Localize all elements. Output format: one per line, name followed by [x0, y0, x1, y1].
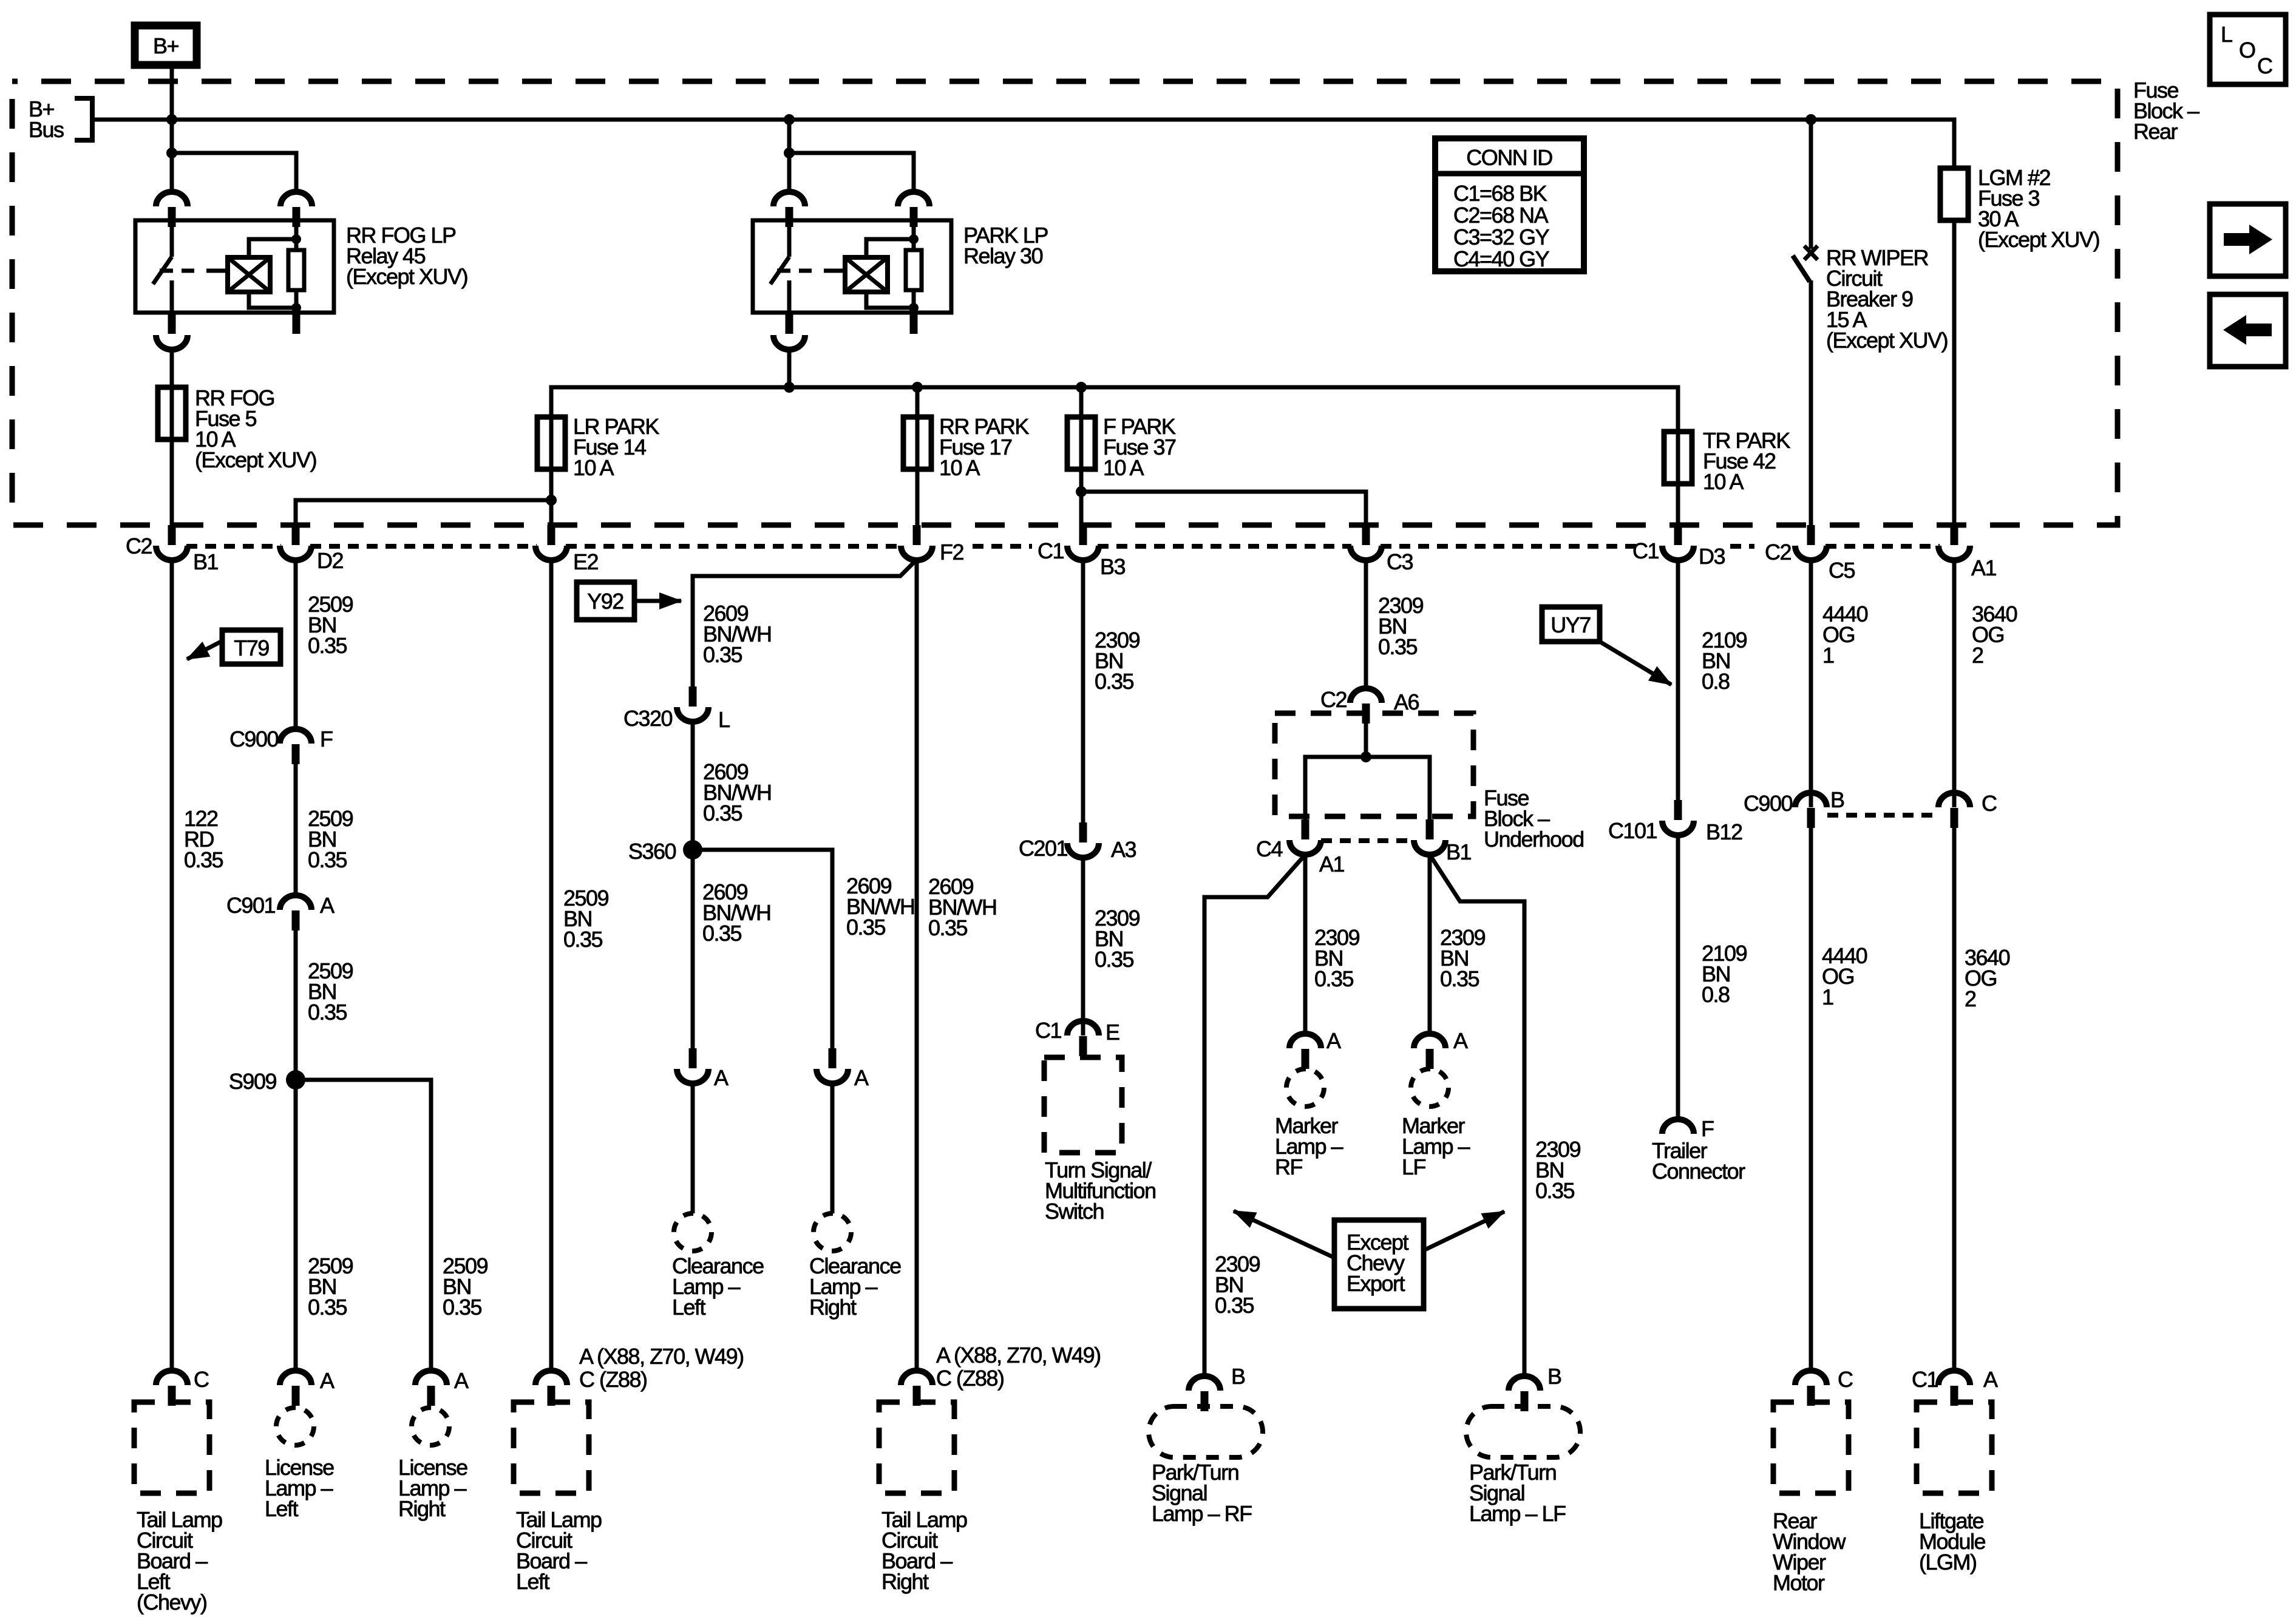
svg-text:C900: C900: [229, 727, 279, 751]
wire: [294, 931, 298, 1372]
svg-text:0.35: 0.35: [1095, 669, 1134, 694]
svg-text:Motor: Motor: [1773, 1570, 1825, 1595]
wire: [294, 764, 298, 897]
breaker blade: [1793, 256, 1810, 282]
svg-text:C5: C5: [1829, 558, 1855, 583]
svg-text:C1: C1: [1912, 1367, 1938, 1392]
svg-text:0.35: 0.35: [1215, 1293, 1254, 1318]
svg-text:B+: B+: [153, 33, 179, 58]
svg-text:UY7: UY7: [1550, 612, 1591, 637]
liftgate module box: [1917, 1402, 1992, 1493]
svg-text:A: A: [320, 893, 335, 918]
svg-text:10 A: 10 A: [573, 455, 614, 480]
wire E2 down: [549, 560, 554, 1372]
svg-text:C (Z88): C (Z88): [936, 1366, 1004, 1391]
svg-text:C (Z88): C (Z88): [579, 1367, 647, 1392]
svg-text:A: A: [320, 1368, 335, 1393]
svg-text:Left: Left: [265, 1496, 299, 1521]
svg-text:B: B: [1830, 787, 1844, 812]
connector C2/C5: [1795, 525, 1827, 560]
connector D2: [280, 525, 311, 560]
junction dot relay1 branch: [166, 147, 177, 158]
svg-text:A1: A1: [1971, 555, 1997, 580]
svg-text:Right: Right: [809, 1295, 857, 1320]
svg-text:0.35: 0.35: [1095, 947, 1134, 972]
connector C wiper: [1795, 1371, 1827, 1406]
svg-text:1: 1: [1822, 643, 1834, 668]
connector C2 A6: [1350, 688, 1382, 724]
svg-text:10 A: 10 A: [1703, 469, 1744, 494]
connector E2: [535, 525, 567, 560]
wire breaker down: [1809, 280, 1813, 526]
connector C900 F: [280, 729, 311, 764]
svg-text:C2=68 NA: C2=68 NA: [1453, 203, 1549, 228]
svg-text:0.35: 0.35: [308, 633, 347, 658]
wire A1 down: [1952, 560, 1957, 807]
park feed wire: [551, 387, 1678, 526]
svg-text:(Except XUV): (Except XUV): [1978, 227, 2099, 252]
svg-text:Left: Left: [516, 1569, 550, 1594]
wire bus to breaker: [1809, 120, 1813, 249]
svg-text:Y92: Y92: [587, 589, 623, 614]
connector A marker RF: [1289, 1034, 1321, 1069]
svg-text:O: O: [2239, 38, 2255, 63]
connector A1: [1938, 525, 1970, 560]
svg-text:B1: B1: [1446, 839, 1472, 864]
arrow to LF wire: [1424, 1212, 1504, 1250]
svg-text:L: L: [718, 707, 730, 732]
svg-text:10 A: 10 A: [1103, 455, 1144, 480]
rear window wiper motor box: [1773, 1402, 1849, 1493]
junction dot bus/breaker: [1805, 114, 1816, 125]
connector C101 B12: [1662, 800, 1694, 835]
wire fuse3 down: [1952, 220, 1957, 526]
connector C1 E: [1067, 1021, 1099, 1056]
wire fuse37 down: [1079, 387, 1084, 526]
turn signal switch box: [1044, 1057, 1122, 1153]
svg-text:Relay 30: Relay 30: [963, 243, 1043, 268]
svg-text:D3: D3: [1699, 544, 1725, 569]
bus wire: [92, 120, 1954, 170]
connector F trailer: [1662, 1119, 1694, 1134]
svg-text:(Except XUV): (Except XUV): [346, 264, 467, 289]
svg-text:Lamp – LF: Lamp – LF: [1469, 1501, 1566, 1526]
license lamp right bulb: [412, 1408, 449, 1445]
svg-text:C901: C901: [226, 893, 276, 918]
svg-text:0.8: 0.8: [1702, 982, 1730, 1007]
svg-text:B: B: [1231, 1364, 1245, 1389]
svg-text:Right: Right: [398, 1496, 446, 1521]
T79 callout: [222, 630, 280, 664]
svg-text:Switch: Switch: [1045, 1199, 1104, 1224]
connector C1/B3: [1067, 525, 1099, 560]
svg-text:B1: B1: [193, 549, 219, 574]
svg-text:T79: T79: [234, 636, 269, 660]
wire B1 down: [170, 560, 174, 1372]
wire park/turn LF: [1430, 855, 1524, 1377]
svg-text:(Except XUV): (Except XUV): [195, 447, 316, 472]
tail lamp circuit board left chevy box: [134, 1402, 209, 1493]
svg-text:C201: C201: [1019, 836, 1068, 861]
connector C4 A1: [1289, 819, 1321, 855]
svg-text:L: L: [2221, 22, 2232, 47]
wire: [691, 721, 695, 850]
connector C1/D3: [1662, 525, 1694, 560]
connector A clearance right: [817, 1048, 848, 1083]
connector tail lamp left: [535, 1371, 567, 1406]
relay2 resistor: [906, 250, 922, 290]
svg-text:C: C: [2257, 53, 2272, 78]
wire fuse17 down: [915, 387, 920, 526]
connector A license right: [415, 1371, 447, 1406]
relay1 switch output pin: [168, 313, 176, 334]
wire relay2 to park bus: [787, 348, 792, 387]
junction dot relay2 branch: [784, 147, 795, 158]
license lamp left bulb: [276, 1408, 314, 1445]
svg-text:2: 2: [1965, 986, 1976, 1011]
svg-text:D2: D2: [317, 548, 343, 573]
relay1 pin connector arcs: [156, 192, 188, 227]
tail lamp circuit board right box: [879, 1402, 954, 1493]
svg-text:S909: S909: [229, 1069, 277, 1094]
relay1 coil wiring: [294, 220, 299, 250]
svg-text:S360: S360: [628, 839, 676, 864]
svg-text:0.35: 0.35: [928, 915, 968, 940]
svg-text:A: A: [1983, 1367, 1998, 1392]
svg-text:(Except XUV): (Except XUV): [1826, 328, 1948, 353]
wire C5 down: [1809, 560, 1813, 807]
connector F2: [901, 525, 932, 560]
connector A clearance left: [677, 1048, 708, 1083]
svg-text:1: 1: [1822, 985, 1833, 1009]
svg-text:0.8: 0.8: [1702, 669, 1730, 694]
wire marker RF: [1303, 855, 1308, 1036]
svg-text:Lamp – RF: Lamp – RF: [1152, 1501, 1252, 1526]
wire bus to relay2: [787, 120, 792, 193]
wire B3 down: [1081, 560, 1085, 822]
svg-text:0.35: 0.35: [308, 847, 347, 872]
wire S360 down: [691, 850, 695, 1048]
svg-text:0.35: 0.35: [308, 1000, 347, 1025]
relay1 switch: [170, 220, 174, 257]
svg-text:Left: Left: [672, 1295, 706, 1320]
wire relay1 to fuse5: [170, 348, 174, 526]
svg-text:0.35: 0.35: [1440, 966, 1479, 991]
underhood internal wiring: [1364, 724, 1368, 757]
branch F2 to C320: [693, 560, 917, 686]
wire S909 branch right: [296, 1080, 431, 1372]
wire branch to coil: [172, 153, 296, 193]
bus bracket: [75, 98, 92, 140]
arrow to RF wire: [1234, 1211, 1334, 1258]
junction dot bus/B+: [166, 114, 177, 125]
relay2 switch output pin: [786, 313, 793, 334]
svg-text:A: A: [854, 1065, 869, 1090]
fuse block underhood box: [1275, 713, 1473, 816]
inline connector dotted line: [186, 544, 1940, 549]
dotted line between C4 and B1: [1321, 838, 1415, 843]
svg-text:A: A: [1453, 1028, 1468, 1053]
clearance lamp right bulb: [813, 1213, 851, 1251]
connector C201 A3: [1067, 822, 1099, 858]
svg-text:0.35: 0.35: [702, 921, 742, 946]
svg-text:0.35: 0.35: [563, 927, 603, 952]
svg-text:C: C: [1838, 1367, 1853, 1392]
svg-text:CONN ID: CONN ID: [1466, 145, 1552, 170]
svg-text:Export: Export: [1347, 1271, 1405, 1296]
svg-text:Connector: Connector: [1652, 1159, 1745, 1184]
svg-text:C101: C101: [1608, 818, 1657, 843]
svg-text:0.35: 0.35: [308, 1295, 347, 1320]
connector B park/turn LF: [1509, 1376, 1540, 1411]
svg-text:C1: C1: [1035, 1018, 1061, 1043]
svg-text:Right: Right: [881, 1569, 929, 1594]
svg-text:C: C: [1982, 791, 1997, 816]
relay2 coil wiring: [912, 220, 916, 250]
svg-text:A1: A1: [1319, 852, 1345, 876]
svg-text:B: B: [1547, 1364, 1561, 1389]
junction dot bus/park relay: [784, 114, 795, 125]
tail lamp circuit board left box: [514, 1402, 589, 1493]
svg-text:B3: B3: [1100, 554, 1126, 579]
relay1 coil bottom stub: [293, 313, 301, 334]
svg-text:0.35: 0.35: [703, 642, 742, 667]
park/turn signal lamp LF: [1466, 1406, 1580, 1457]
svg-text:C3=32 GY: C3=32 GY: [1453, 225, 1550, 249]
svg-text:A: A: [454, 1368, 469, 1393]
Except Chevy Export callout box: [1334, 1220, 1424, 1309]
svg-text:A (X88, Z70, W49): A (X88, Z70, W49): [936, 1343, 1101, 1368]
svg-text:0.35: 0.35: [184, 847, 223, 872]
svg-text:2: 2: [1972, 643, 1983, 668]
marker lamp RF bulb: [1286, 1069, 1324, 1107]
Y92 callout: [577, 582, 634, 620]
relay1 coil: [216, 269, 228, 273]
connector B park/turn RF: [1189, 1376, 1220, 1411]
svg-text:E: E: [1106, 1020, 1119, 1045]
branch to C3: [1081, 492, 1366, 526]
relay2 coil: [834, 269, 845, 273]
relay2 pin connector arcs: [773, 192, 805, 227]
svg-text:F2: F2: [940, 540, 963, 564]
connector C (C900): [1938, 793, 1970, 828]
svg-text:F: F: [1701, 1116, 1714, 1141]
svg-text:A: A: [1326, 1028, 1341, 1053]
connector A marker LF: [1414, 1034, 1445, 1069]
svg-text:B12: B12: [1706, 819, 1742, 844]
svg-text:(LGM): (LGM): [1919, 1550, 1977, 1575]
svg-text:Bus: Bus: [29, 117, 64, 142]
clearance lamp left bulb: [674, 1213, 712, 1251]
relay2 box: [753, 220, 951, 313]
relay1 box: [135, 220, 334, 313]
wire C3 down: [1364, 560, 1368, 689]
svg-text:E2: E2: [573, 549, 599, 574]
svg-text:C4: C4: [1256, 836, 1282, 861]
wire fuse14 down: [546, 495, 557, 506]
wire bus to fuse3: [1940, 168, 1968, 220]
svg-text:Rear: Rear: [2133, 119, 2178, 144]
svg-text:F: F: [320, 727, 333, 751]
svg-text:C1: C1: [1632, 538, 1659, 563]
svg-text:LF: LF: [1402, 1154, 1426, 1179]
connector C tail lamp left chevy: [156, 1371, 188, 1406]
wire F2 down: [915, 560, 919, 1372]
svg-text:C2: C2: [1765, 540, 1791, 564]
connector B1: [1414, 819, 1445, 855]
svg-text:C320: C320: [623, 706, 673, 731]
wire park/turn RF: [1204, 855, 1305, 1377]
svg-text:Underhood: Underhood: [1484, 827, 1584, 852]
svg-text:A: A: [714, 1065, 729, 1090]
connector C2/B1: [156, 525, 188, 560]
svg-text:0.35: 0.35: [443, 1295, 482, 1320]
splice S909: [286, 1070, 305, 1090]
breaker x mark: [1804, 246, 1818, 260]
marker lamp LF bulb: [1411, 1069, 1449, 1107]
svg-text:C3: C3: [1387, 549, 1413, 574]
park/turn signal lamp RF: [1149, 1406, 1263, 1457]
svg-text:RF: RF: [1275, 1154, 1302, 1179]
B+ box: [135, 25, 197, 65]
svg-text:A (X88, Z70, W49): A (X88, Z70, W49): [579, 1344, 744, 1369]
svg-text:10 A: 10 A: [939, 455, 980, 480]
svg-text:C900: C900: [1744, 791, 1793, 816]
wire D3 down: [1676, 560, 1680, 800]
svg-text:0.35: 0.35: [1535, 1178, 1575, 1203]
svg-text:0.35: 0.35: [846, 915, 886, 940]
relay2 switch: [787, 220, 792, 257]
svg-text:(Chevy): (Chevy): [137, 1590, 207, 1615]
connector C3: [1350, 525, 1382, 560]
svg-text:0.35: 0.35: [1378, 634, 1418, 659]
svg-text:C4=40 GY: C4=40 GY: [1453, 246, 1550, 271]
connector A license left: [280, 1371, 311, 1406]
connector C320 L: [677, 686, 708, 722]
svg-text:C2: C2: [126, 534, 152, 558]
splice S360: [683, 840, 702, 859]
relay2 coil bottom stub: [910, 313, 918, 334]
svg-text:0.35: 0.35: [1314, 966, 1354, 991]
UY7 callout: [1542, 607, 1600, 642]
wire S360 branch right: [693, 850, 832, 1048]
connector C900 B: [1795, 793, 1827, 828]
branch to D2: [296, 500, 551, 526]
wire D2 down: [294, 560, 298, 730]
connector tail lamp right: [901, 1371, 932, 1406]
fuse block rear border: [12, 81, 2118, 525]
dotted line C900 B to C: [1827, 813, 1938, 818]
connector C901 A: [280, 895, 311, 931]
svg-text:0.35: 0.35: [703, 801, 742, 825]
svg-text:C1: C1: [1038, 538, 1064, 563]
svg-text:A3: A3: [1111, 837, 1136, 862]
svg-text:C2: C2: [1320, 687, 1347, 712]
relay1 resistor: [288, 250, 304, 290]
wire marker LF: [1428, 855, 1432, 1036]
wire B+ down: [170, 65, 174, 193]
svg-text:C1=68 BK: C1=68 BK: [1453, 181, 1547, 206]
svg-text:C: C: [194, 1367, 209, 1392]
connector C1 A liftgate: [1938, 1371, 1970, 1406]
